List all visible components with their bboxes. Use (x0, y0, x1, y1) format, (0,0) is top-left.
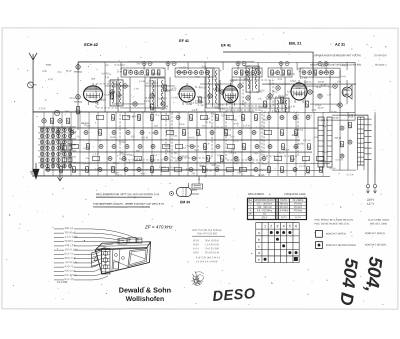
svg-text:1,2 k: 1,2 k (243, 125, 251, 127)
svg-text:2 M: 2 M (223, 129, 228, 131)
svg-text:0,5 M: 0,5 M (289, 106, 296, 108)
svg-text:TA: TA (263, 213, 266, 216)
svg-text:50 pF: 50 pF (105, 65, 109, 67)
svg-text:350 200 pF: 350 200 pF (120, 86, 127, 88)
svg-text:0,5 M: 0,5 M (144, 75, 148, 77)
svg-text:30 8 uF: 30 8 uF (194, 150, 199, 152)
svg-text:200 pF: 200 pF (64, 226, 73, 230)
svg-text:0,05: 0,05 (234, 161, 239, 163)
svg-text:8 uF: 8 uF (66, 71, 73, 73)
svg-text:200 pF: 200 pF (137, 63, 142, 65)
svg-text:30 8 uF: 30 8 uF (307, 115, 312, 117)
svg-text:50 pF: 50 pF (195, 77, 200, 79)
svg-text:350 200 pF: 350 200 pF (119, 142, 127, 144)
svg-text:1,2 k: 1,2 k (38, 108, 46, 110)
svg-text:WELLENBER.: WELLENBER. (248, 192, 265, 196)
svg-text:470 1,2 k: 470 1,2 k (64, 243, 76, 247)
svg-text:350 100: 350 100 (193, 240, 200, 242)
svg-text:50 pF: 50 pF (341, 76, 346, 78)
svg-text:0,5 M: 0,5 M (126, 70, 132, 72)
svg-text:10 k 75: 10 k 75 (132, 116, 140, 118)
svg-text:30 5 k: 30 5 k (177, 94, 185, 96)
svg-text:Cu 4 RM: Cu 4 RM (57, 280, 67, 284)
svg-text:5 k 10 k 5 k 1 M 8 uF: 5 k 10 k 5 k 1 M 8 uF (196, 261, 219, 263)
svg-text:350 50 pF: 350 50 pF (64, 230, 75, 234)
svg-text:2 M 350: 2 M 350 (179, 67, 187, 69)
svg-text:0,05: 0,05 (51, 153, 56, 155)
svg-text:50 pF: 50 pF (154, 126, 158, 128)
svg-text:8 uF 350: 8 uF 350 (102, 73, 110, 75)
svg-text:200 pF: 200 pF (120, 65, 126, 67)
svg-text:1 M: 1 M (198, 105, 204, 107)
svg-text:KONTAKT OFFEN: KONTAKT OFFEN (326, 232, 346, 235)
svg-text:1 M 75: 1 M 75 (226, 171, 232, 173)
svg-text:Dewald & Sohn: Dewald & Sohn (119, 285, 171, 294)
svg-text:350 100: 350 100 (266, 99, 272, 101)
svg-text:100 10 k: 100 10 k (64, 158, 72, 160)
svg-text:50 pF: 50 pF (62, 166, 67, 168)
svg-text:KONTAKT GESCHLOSSEN: KONTAKT GESCHLOSSEN (326, 244, 356, 247)
svg-text:1,2 k: 1,2 k (75, 136, 79, 138)
svg-text:8 uF: 8 uF (202, 126, 206, 128)
svg-text:0,05: 0,05 (252, 68, 257, 70)
svg-text:OSZILL: OSZILL (280, 200, 289, 202)
svg-text:0,05: 0,05 (237, 173, 242, 175)
svg-text:8 uF: 8 uF (186, 169, 190, 171)
svg-text:8 uF: 8 uF (172, 90, 177, 92)
svg-text:1 M 0,1: 1 M 0,1 (340, 65, 347, 67)
svg-text:75 2 M: 75 2 M (114, 65, 119, 67)
svg-text:0,1 2 M: 0,1 2 M (300, 166, 306, 168)
svg-text:10 k 2 M: 10 k 2 M (296, 130, 303, 132)
svg-text:25 pF: 25 pF (201, 66, 207, 68)
svg-text:EM 34: EM 34 (180, 200, 190, 204)
svg-text:0,25: 0,25 (287, 91, 293, 93)
svg-text:10 k 470: 10 k 470 (83, 163, 91, 165)
svg-text:50 pF: 50 pF (333, 117, 340, 119)
svg-text:2 M 30: 2 M 30 (329, 112, 337, 114)
svg-text:50 pF: 50 pF (280, 75, 284, 77)
svg-text:e: e (258, 258, 260, 262)
svg-text:25 pF: 25 pF (183, 148, 187, 150)
svg-text:WELLENBEREICHE: MITT. 515-1620: WELLENBEREICHE: MITT. 515-1620 kHz KURZW… (96, 193, 160, 196)
svg-text:2 M 470: 2 M 470 (188, 137, 195, 139)
svg-text:0,05: 0,05 (162, 108, 169, 110)
svg-text:KONTAKT OFFEN: KONTAKT OFFEN (365, 232, 385, 235)
svg-text:20 000 Ω/V: 20 000 Ω/V (374, 54, 387, 57)
svg-text:1 M 0,05: 1 M 0,05 (140, 173, 146, 175)
svg-text:200 pF: 200 pF (199, 102, 204, 104)
svg-text:25 pF: 25 pF (273, 73, 277, 75)
svg-text:ALLE UEBR. KONT.: ALLE UEBR. KONT. (368, 219, 390, 222)
svg-text:1 M: 1 M (112, 87, 116, 89)
svg-text:0,05: 0,05 (217, 155, 222, 157)
svg-text:470 kHz: 470 kHz (294, 203, 303, 205)
svg-text:985 kHz: 985 kHz (280, 203, 289, 205)
svg-text:200 pF: 200 pF (275, 159, 279, 161)
svg-text:30 8 uF: 30 8 uF (65, 111, 70, 113)
svg-text:POS. PFEILE BEI LANGE WELLEN,: POS. PFEILE BEI LANGE WELLEN, (314, 219, 353, 222)
svg-text:30 0,5 M: 30 0,5 M (169, 167, 175, 169)
svg-text:0,25: 0,25 (298, 144, 305, 146)
svg-text:8 uF: 8 uF (317, 87, 323, 89)
svg-text:0,05: 0,05 (186, 104, 192, 106)
svg-text:0,5 M: 0,5 M (72, 132, 76, 134)
svg-text:200 pF: 200 pF (285, 95, 289, 97)
svg-text:25 pF: 25 pF (216, 166, 220, 168)
svg-text:AZ 31: AZ 31 (335, 43, 345, 47)
svg-text:75 75: 75 75 (48, 144, 56, 146)
svg-text:4: 4 (283, 224, 285, 228)
svg-text:200 pF 0,5 M: 200 pF 0,5 M (64, 256, 75, 260)
svg-text:ZF = 470 kHz: ZF = 470 kHz (144, 224, 173, 229)
svg-text:30 50 pF: 30 50 pF (204, 118, 211, 120)
svg-text:2 M 0,05: 2 M 0,05 (288, 74, 295, 76)
svg-text:Wollishofen: Wollishofen (126, 296, 164, 303)
svg-text:350 30: 350 30 (335, 138, 342, 140)
svg-text:1: 1 (264, 224, 266, 228)
svg-text:470 350: 470 350 (108, 81, 116, 83)
svg-text:0,05: 0,05 (145, 98, 153, 100)
svg-text:1 M: 1 M (85, 158, 89, 160)
svg-text:EF 41: EF 41 (179, 39, 189, 43)
svg-text:100 470: 100 470 (152, 74, 159, 76)
svg-text:470 1 M: 470 1 M (216, 127, 222, 129)
svg-text:1 M: 1 M (149, 133, 155, 135)
svg-text:75 25 pF: 75 25 pF (322, 152, 329, 154)
svg-text:2 M 25 pF: 2 M 25 pF (315, 105, 321, 107)
svg-text:5 k 200 pF: 5 k 200 pF (158, 98, 165, 100)
svg-text:200 pF: 200 pF (113, 163, 120, 165)
svg-text:0,05: 0,05 (244, 72, 251, 74)
svg-text:ZF. KREIS: ZF. KREIS (293, 200, 304, 202)
svg-text:5 k 1,2 k: 5 k 1,2 k (186, 145, 192, 147)
svg-text:POS. 550 BEI KURZE WELLEN,: POS. 550 BEI KURZE WELLEN, (314, 222, 349, 225)
svg-text:1,2 k: 1,2 k (254, 140, 260, 142)
svg-text:10 k 25 pF: 10 k 25 pF (162, 119, 170, 121)
svg-text:1 M: 1 M (202, 169, 207, 171)
svg-text:8 uF: 8 uF (200, 165, 205, 167)
svg-text:5 k 350: 5 k 350 (171, 97, 178, 99)
svg-text:75 50 pF: 75 50 pF (230, 80, 237, 82)
svg-text:0,05 75: 0,05 75 (192, 146, 200, 148)
svg-text:d: d (258, 251, 260, 255)
svg-text:0,25: 0,25 (193, 244, 200, 246)
svg-text:Ber: Ber (249, 199, 253, 202)
svg-text:0,5 M: 0,5 M (231, 136, 235, 138)
svg-text:200 pF: 200 pF (212, 165, 217, 167)
svg-text:75 25 pF: 75 25 pF (83, 148, 90, 150)
svg-text:2 M: 2 M (164, 106, 168, 108)
svg-text:350 200 pF: 350 200 pF (64, 239, 73, 243)
svg-text:127 V: 127 V (281, 217, 287, 219)
svg-text:FREQUENZ LAGE: FREQUENZ LAGE (284, 192, 306, 196)
svg-text:30 470: 30 470 (212, 79, 218, 81)
svg-text:150 - 320 kHz: 150 - 320 kHz (257, 207, 272, 209)
svg-text:8 uF 1,2 k: 8 uF 1,2 k (52, 158, 60, 160)
svg-text:2 M: 2 M (117, 72, 122, 74)
svg-text:0,05 470 0,25 350: 0,05 470 0,25 350 (197, 232, 218, 235)
svg-text:0,25 5 k: 0,25 5 k (304, 82, 312, 84)
svg-text:50 pF: 50 pF (52, 163, 59, 165)
svg-text:25 pF: 25 pF (244, 66, 252, 68)
svg-text:5: 5 (289, 224, 291, 228)
svg-text:50 pF: 50 pF (233, 163, 239, 165)
svg-text:25 pF: 25 pF (57, 72, 62, 74)
svg-text:0,1 100: 0,1 100 (300, 78, 308, 80)
svg-text:200 pF: 200 pF (318, 82, 325, 84)
svg-text:0,5 M: 0,5 M (214, 106, 218, 108)
svg-text:1,2 k: 1,2 k (165, 151, 171, 153)
svg-text:1,2 k: 1,2 k (94, 169, 101, 171)
svg-text:2 M: 2 M (348, 117, 354, 119)
svg-text:470 100: 470 100 (278, 103, 284, 105)
svg-text:2 M: 2 M (312, 110, 317, 112)
svg-text:200 pF: 200 pF (239, 168, 244, 170)
svg-text:6: 6 (295, 224, 297, 228)
svg-text:200 pF: 200 pF (244, 79, 249, 81)
svg-text:470 kHz: 470 kHz (294, 207, 303, 209)
svg-text:a: a (258, 231, 260, 235)
svg-text:1 M 0,25: 1 M 0,25 (100, 99, 107, 101)
svg-text:50 pF: 50 pF (56, 128, 64, 130)
svg-text:SENDEFREQUENZ: SENDEFREQUENZ (254, 200, 275, 202)
svg-text:0,1 2 M: 0,1 2 M (347, 174, 354, 176)
svg-text:25 pF: 25 pF (325, 162, 333, 164)
svg-text:EF 41: EF 41 (221, 44, 231, 48)
svg-text:75 0,05: 75 0,05 (104, 95, 111, 97)
svg-text:0,05 30: 0,05 30 (256, 163, 264, 165)
svg-text:2 M: 2 M (317, 94, 321, 96)
svg-text:0,25 0,5 M: 0,25 0,5 M (303, 140, 310, 142)
svg-text:50 pF: 50 pF (259, 107, 264, 109)
svg-text:200 pF: 200 pF (81, 170, 86, 172)
svg-text:8 uF: 8 uF (258, 176, 264, 178)
svg-text:1,2 k: 1,2 k (327, 94, 332, 96)
svg-text:515 - 1620 kHz: 515 - 1620 kHz (257, 203, 273, 205)
svg-text:350 0,05: 350 0,05 (181, 156, 189, 158)
svg-text:5 k 350: 5 k 350 (231, 120, 237, 122)
svg-text:5 k 0,1: 5 k 0,1 (193, 248, 200, 250)
svg-text:100 0,5 M: 100 0,5 M (111, 167, 117, 169)
svg-text:3: 3 (277, 224, 279, 228)
svg-text:8 uF: 8 uF (321, 85, 328, 87)
svg-text:350 1,2 k: 350 1,2 k (298, 71, 305, 73)
svg-text:EBL 21: EBL 21 (289, 42, 301, 46)
svg-text:100 0,5 M: 100 0,5 M (322, 72, 328, 74)
svg-text:10 k 0,5 M: 10 k 0,5 M (64, 247, 77, 251)
svg-text:6,3 V: 6,3 V (295, 217, 301, 219)
svg-text:8 uF 5 k: 8 uF 5 k (64, 252, 74, 256)
svg-text:0,25: 0,25 (250, 75, 257, 77)
svg-text:2 M 30: 2 M 30 (139, 81, 146, 83)
svg-text:100 0,5 M: 100 0,5 M (258, 170, 264, 172)
svg-text:b: b (258, 238, 260, 242)
svg-text:620 kHz: 620 kHz (280, 207, 289, 209)
svg-text:0,25: 0,25 (173, 135, 177, 137)
svg-text:0,5 M: 0,5 M (321, 66, 325, 68)
svg-text:350 0,25: 350 0,25 (297, 68, 303, 70)
svg-text:5,9 - 18,2 MHz: 5,9 - 18,2 MHz (257, 210, 273, 212)
svg-text:0,25: 0,25 (165, 146, 171, 148)
svg-text:0,5 M: 0,5 M (65, 151, 69, 153)
svg-text:DESO: DESO (212, 286, 256, 305)
svg-text:2 M 0,1: 2 M 0,1 (272, 91, 279, 93)
svg-text:2: 2 (270, 224, 272, 228)
svg-text:0,5 M: 0,5 M (82, 123, 89, 125)
svg-text:8 uF 470 0,1: 8 uF 470 0,1 (64, 273, 77, 277)
svg-text:1,2 k: 1,2 k (144, 101, 151, 103)
svg-text:200 pF: 200 pF (217, 162, 222, 164)
svg-text:350 50 pF: 350 50 pF (176, 72, 183, 74)
svg-text:0,05: 0,05 (131, 136, 136, 138)
svg-text:100 25 pF: 100 25 pF (193, 252, 199, 254)
svg-text:0,5 M: 0,5 M (142, 137, 148, 139)
svg-text:8 uF: 8 uF (323, 126, 328, 128)
svg-text:1,2 k: 1,2 k (272, 111, 278, 113)
svg-text:IN VOLT ≈: IN VOLT ≈ (375, 64, 387, 67)
svg-text:M: M (250, 203, 252, 205)
svg-text:200 pF: 200 pF (129, 155, 134, 157)
svg-text:50 pF: 50 pF (218, 109, 226, 111)
svg-text:ECH 42: ECH 42 (84, 42, 98, 47)
svg-text:30 30: 30 30 (291, 135, 299, 137)
svg-text:0,25: 0,25 (110, 137, 116, 139)
svg-text:WIE GEZ. SIND: WIE GEZ. SIND (370, 222, 387, 225)
svg-text:220 V: 220 V (261, 217, 267, 219)
svg-text:75 1 M: 75 1 M (303, 161, 307, 163)
svg-text:127 V: 127 V (367, 202, 374, 206)
svg-text:0,5 M: 0,5 M (228, 151, 232, 153)
svg-text:0,5 M: 0,5 M (75, 111, 82, 113)
svg-text:50 pF: 50 pF (66, 156, 71, 158)
svg-text:2 M 2 M: 2 M 2 M (159, 167, 166, 169)
svg-text:1 M 0,25: 1 M 0,25 (69, 98, 77, 100)
svg-text:200 pF: 200 pF (73, 163, 79, 165)
svg-text:KONTAKT GESCHL.: KONTAKT GESCHL. (365, 243, 388, 246)
svg-text:350 25 pF: 350 25 pF (175, 160, 181, 162)
svg-text:0,25: 0,25 (266, 97, 272, 99)
svg-text:75 0,25: 75 0,25 (257, 90, 265, 92)
svg-text:1,2 k 0,25: 1,2 k 0,25 (64, 235, 78, 239)
svg-text:GEGEN CHASSIS MIT NETZSCHALTER: GEGEN CHASSIS MIT NETZSCHALTER EIN (310, 64, 361, 67)
svg-text:50 pF: 50 pF (136, 150, 141, 152)
svg-text:1 M 0,05 1,2 k: 1 M 0,05 1,2 k (64, 260, 78, 264)
svg-text:8 uF: 8 uF (318, 107, 325, 109)
svg-text:1 M: 1 M (148, 81, 152, 83)
svg-text:1,2 k: 1,2 k (93, 154, 99, 156)
svg-text:5 k 50 pF: 5 k 50 pF (283, 150, 290, 152)
svg-text:1,2 k: 1,2 k (228, 100, 233, 102)
svg-text:1 M 1,2 k: 1 M 1,2 k (43, 146, 49, 148)
svg-text:TONABNEHMER-ANSCHL. UEBER KONT: TONABNEHMER-ANSCHL. UEBER KONTAKT AUF WE… (93, 203, 164, 206)
svg-text:504,: 504, (362, 256, 387, 294)
svg-text:1 M: 1 M (105, 77, 109, 79)
svg-text:470 kHz: 470 kHz (294, 210, 303, 212)
svg-text:1,2 k: 1,2 k (217, 105, 224, 107)
svg-text:0,05: 0,05 (95, 102, 99, 104)
svg-text:2 M: 2 M (242, 102, 246, 104)
svg-text:8 uF 0,25 10 k 2 M 5 k: 8 uF 0,25 10 k 2 M 5 k (196, 257, 221, 259)
svg-text:0,1 0,5 M: 0,1 0,5 M (336, 159, 343, 161)
svg-text:1 M: 1 M (291, 159, 296, 161)
svg-text:30 100 0,5 M: 30 100 0,5 M (205, 252, 219, 254)
svg-text:75 0,25 350: 75 0,25 350 (205, 248, 220, 250)
svg-text:470 75: 470 75 (64, 264, 74, 268)
svg-text:1,2 k: 1,2 k (293, 147, 298, 149)
svg-text:50 pF: 50 pF (151, 112, 156, 114)
svg-text:0,05 0,5 M: 0,05 0,5 M (64, 269, 75, 273)
svg-text:200 pF: 200 pF (117, 175, 123, 177)
svg-text:0,5 M: 0,5 M (263, 120, 268, 122)
svg-text:8 uF: 8 uF (188, 99, 193, 101)
svg-text:1,2 k 30 0,25: 1,2 k 30 0,25 (205, 244, 220, 246)
svg-text:SPANNUNGEN GEMESSEN MIT VOLTM.: SPANNUNGEN GEMESSEN MIT VOLTM. (314, 54, 361, 57)
svg-text:6,4 MHz: 6,4 MHz (280, 210, 289, 212)
svg-text:0,25: 0,25 (278, 79, 283, 81)
svg-text:25 pF: 25 pF (254, 153, 259, 155)
svg-text:200 pF 100 200 pF: 200 pF 100 200 pF (205, 240, 219, 242)
svg-text:1 M: 1 M (134, 88, 139, 90)
